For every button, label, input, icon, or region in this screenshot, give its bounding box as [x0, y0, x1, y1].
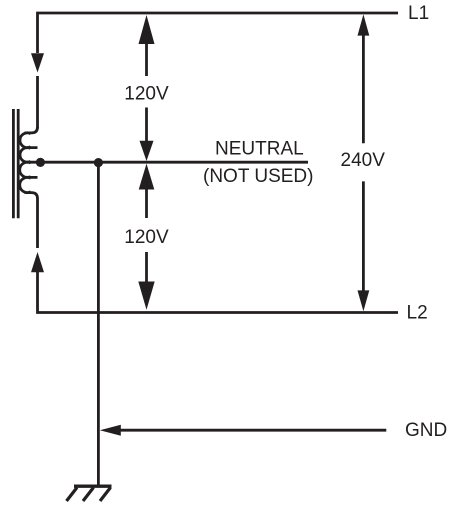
- measure arrow 120V bottom shaft lower: [145, 252, 148, 282]
- ground symbol hatch 1: [67, 488, 78, 502]
- measure arrow 240V shaft upper: [362, 34, 365, 143]
- wire ground vertical: [97, 162, 100, 485]
- transformer core line 1: [12, 109, 15, 218]
- arrowhead down on left wire: [31, 53, 44, 72]
- wire L1 top line: [38, 13, 399, 53]
- arrowhead 120V top up: [139, 15, 155, 44]
- wire GND horizontal: [121, 429, 387, 432]
- arrowhead 240V down: [358, 290, 370, 311]
- svg-text:(NOT USED): (NOT USED): [203, 166, 313, 187]
- arrowhead 120V bottom down: [138, 282, 154, 310]
- wire left vertical below up-arrow to L2 and L2 line: [38, 272, 399, 313]
- arrowhead 120V bottom up: [139, 164, 155, 190]
- transformer core line 2: [17, 109, 20, 218]
- measure arrow 120V top shaft lower: [145, 108, 148, 142]
- ground symbol hatch 2: [83, 488, 94, 502]
- measure arrow 120V top shaft upper: [145, 43, 148, 77]
- junction dot center tap: [36, 158, 45, 167]
- junction dot neutral/ground: [94, 158, 103, 167]
- arrowhead up on left wire: [31, 252, 44, 272]
- svg-text:GND: GND: [405, 420, 447, 441]
- arrowhead 240V up: [358, 14, 370, 35]
- arrowhead GND left: [100, 425, 121, 436]
- svg-text:L2: L2: [407, 303, 428, 324]
- ground symbol bar: [74, 485, 112, 488]
- ground symbol hatch 3: [100, 488, 111, 502]
- arrowhead 120V top down: [140, 141, 154, 161]
- measure arrow 120V bottom shaft upper: [145, 189, 148, 219]
- svg-text:L1: L1: [408, 3, 429, 24]
- wire left vertical below arrow: [36, 76, 39, 128]
- svg-text:120V: 120V: [124, 227, 169, 248]
- wire neutral horizontal: [25, 161, 309, 164]
- svg-text:NEUTRAL: NEUTRAL: [215, 139, 304, 160]
- svg-text:240V: 240V: [341, 150, 386, 171]
- measure arrow 240V shaft lower: [362, 181, 365, 292]
- svg-text:120V: 120V: [124, 84, 169, 105]
- transformer T1 winding: [20, 127, 38, 248]
